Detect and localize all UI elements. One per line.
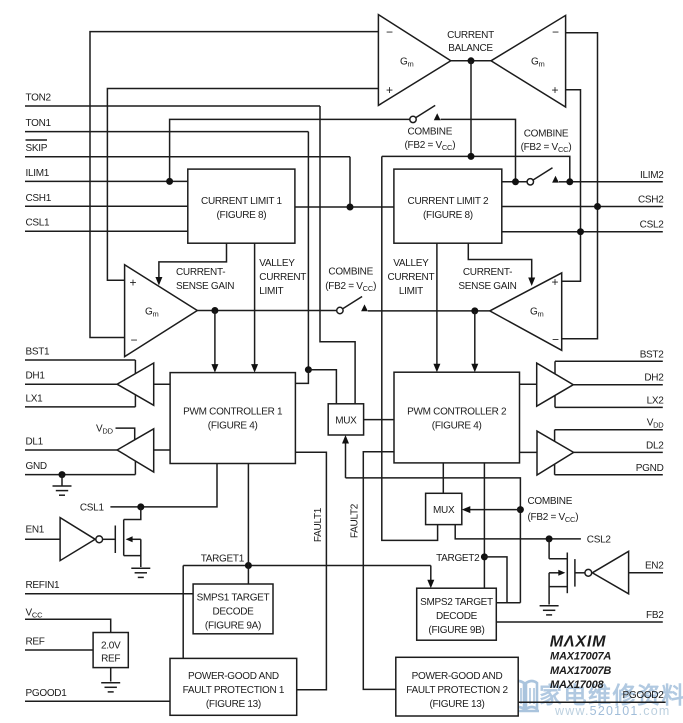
wire BST1 stub into driver top edge	[134, 360, 136, 374]
wire between current limit blocks	[295, 206, 394, 208]
svg-text:−: −	[552, 333, 559, 347]
block 2.0V REF	[93, 633, 128, 668]
buffer DH2 gate driver	[537, 363, 574, 406]
wire VDD stub into DL1 driver top edge	[116, 428, 135, 440]
svg-text:VALLEY: VALLEY	[393, 258, 429, 269]
wire PWM2 down to TARGET2	[483, 463, 485, 588]
svg-text:EN2: EN2	[645, 560, 664, 571]
svg-text:LIMIT: LIMIT	[259, 286, 283, 297]
wire left sense amp output	[197, 310, 336, 312]
svg-text:MUX: MUX	[335, 416, 357, 427]
svg-text:SENSE GAIN: SENSE GAIN	[176, 281, 234, 292]
wire LX1 stub into driver bottom edge	[134, 395, 136, 407]
wire FAULT2	[363, 452, 396, 690]
svg-text:SKIP: SKIP	[26, 143, 48, 154]
wire LX2 stub into driver bottom edge	[554, 395, 556, 407]
wire EN1 inverter to gate	[103, 538, 116, 540]
wire current-sense gain set 2	[468, 243, 531, 278]
svg-text:FB2: FB2	[646, 610, 664, 621]
node sense output 2	[471, 307, 478, 314]
svg-text:(FIGURE 9A): (FIGURE 9A)	[205, 621, 261, 632]
node FB2-select junction	[517, 506, 524, 513]
wire PWM2 to DH2 driver	[520, 383, 537, 385]
svg-text:CSL1: CSL1	[26, 218, 51, 229]
wire DL1 driver to PWM1	[154, 449, 170, 451]
wire current balance output down to combine bus	[470, 61, 472, 157]
svg-text:TARGET2: TARGET2	[436, 553, 480, 564]
wire left GM plus input	[107, 89, 378, 281]
switch COMBINE on ILIM2 line	[512, 178, 519, 185]
svg-text:VALLEY: VALLEY	[259, 258, 295, 269]
op-amp GM current balance right	[491, 15, 566, 107]
node CSL2 junction	[577, 228, 584, 235]
block POWER-GOOD AND FAULT PROTECTION 1 (FIGURE 13)	[170, 658, 297, 715]
svg-text:TON1: TON1	[26, 118, 52, 129]
wire center switch to right sense amp output	[368, 310, 490, 312]
svg-text:SENSE GAIN: SENSE GAIN	[458, 281, 516, 292]
svg-text:−: −	[386, 25, 393, 39]
svg-text:+: +	[552, 83, 559, 97]
wire TON2 down to MUX1	[320, 106, 355, 404]
transistor Q2 (CSL2 discharge)	[574, 559, 576, 587]
block SMPS1 TARGET DECODE (FIGURE 9A)	[193, 584, 273, 634]
svg-text:REF: REF	[101, 654, 120, 665]
svg-text:CSH2: CSH2	[638, 195, 664, 206]
wire SKIP down to inter-block net	[349, 157, 351, 207]
block MUX1 (TON select)	[328, 404, 363, 435]
svg-text:POWER-GOOD AND: POWER-GOOD AND	[188, 671, 279, 682]
svg-text:ILIM1: ILIM1	[26, 168, 50, 179]
svg-text:DH1: DH1	[26, 371, 46, 382]
wire MUX1 output to PWM2	[364, 419, 394, 421]
node SKIP junction	[347, 204, 354, 211]
svg-text:PWM CONTROLLER 2: PWM CONTROLLER 2	[407, 407, 507, 418]
wire BST2 stub into driver top edge	[554, 361, 556, 374]
svg-text:BST1: BST1	[26, 347, 51, 358]
wire CSL1 net to PWM1	[110, 464, 217, 507]
svg-text:ΜΛΧΙΜ: ΜΛΧΙΜ	[550, 634, 606, 651]
node CSL2 sense junction	[546, 535, 553, 542]
svg-text:GND: GND	[26, 461, 47, 472]
wire into SMPS2 right edge	[496, 602, 520, 604]
watermark book icon	[511, 681, 539, 711]
svg-text:LX2: LX2	[647, 395, 665, 406]
wire VCC to 2.0V REF box	[25, 619, 111, 632]
wire sense output 1 to PWM1	[214, 311, 216, 365]
node combine bus junction	[468, 153, 475, 160]
wire MUX2 output up to PWM2	[442, 463, 444, 493]
wire combine bus to ILIM2 switch	[382, 156, 570, 181]
svg-text:CSL1: CSL1	[80, 502, 105, 513]
svg-text:FAULT2: FAULT2	[350, 503, 361, 538]
svg-text:EN1: EN1	[26, 525, 45, 536]
wire VDD stub into DL2 driver top edge	[554, 430, 556, 442]
svg-text:+: +	[130, 276, 137, 290]
wire TARGET1 arrow into SMPS2 decode	[430, 566, 432, 581]
svg-text:PGND: PGND	[636, 463, 664, 474]
svg-text:LX1: LX1	[26, 393, 44, 404]
wire TON1 into PWM1	[295, 370, 308, 384]
block POWER-GOOD AND FAULT PROTECTION 2 (FIGURE 13)	[396, 657, 518, 716]
wire PWM2 to DL2 driver	[520, 451, 538, 453]
buffer DH1 gate driver	[117, 363, 154, 405]
wire right GM plus input to CSL2	[566, 90, 581, 232]
svg-text:SMPS1 TARGET: SMPS1 TARGET	[197, 593, 270, 604]
svg-text:FAULT PROTECTION 1: FAULT PROTECTION 1	[183, 685, 285, 696]
wire PGND stub into DL2 driver bottom edge	[554, 463, 556, 475]
svg-text:+: +	[386, 83, 393, 97]
svg-text:MAX17007A: MAX17007A	[550, 651, 611, 663]
svg-text:CURRENT: CURRENT	[447, 30, 494, 41]
wire left GM minus input	[90, 32, 378, 338]
svg-text:DECODE: DECODE	[436, 611, 478, 622]
wire joining the two GM outputs	[451, 60, 491, 62]
op-amp GM current-sense right	[490, 273, 562, 350]
svg-text:COMBINE: COMBINE	[408, 127, 453, 138]
wire PWM1 to TARGET1 to SMPS1 decode	[247, 464, 249, 585]
svg-text:DL2: DL2	[646, 440, 664, 451]
svg-text:(FIGURE 9B): (FIGURE 9B)	[428, 625, 484, 636]
svg-text:CURRENT-: CURRENT-	[176, 267, 225, 278]
svg-text:www.520101.com: www.520101.com	[554, 704, 670, 718]
svg-text:DECODE: DECODE	[213, 607, 255, 618]
wire sense output 2 to PWM2	[474, 311, 476, 364]
node CSH2 junction	[594, 203, 601, 210]
block SMPS2 TARGET DECODE (FIGURE 9B)	[417, 588, 497, 640]
wire TARGET1 net	[183, 565, 431, 567]
svg-text:(FIGURE 4): (FIGURE 4)	[208, 421, 258, 432]
wire TARGET2 loop into SMPS2 right edge	[484, 557, 507, 603]
wire CSL2 down to mosfet	[548, 539, 550, 559]
svg-text:SMPS2 TARGET: SMPS2 TARGET	[420, 597, 493, 608]
svg-text:(FIGURE 13): (FIGURE 13)	[429, 699, 484, 710]
wire EN2 inverter to gate	[575, 572, 585, 574]
node TON1 junction	[305, 366, 312, 373]
wire FB2-select into MUX1	[345, 443, 347, 478]
svg-text:ILIM2: ILIM2	[640, 170, 664, 181]
svg-text:CURRENT-: CURRENT-	[463, 267, 512, 278]
inverter EN2	[592, 551, 628, 594]
wire TARGET1 down to power-good 1	[182, 566, 184, 659]
svg-text:−: −	[552, 25, 559, 39]
svg-text:REFIN1: REFIN1	[26, 580, 61, 591]
block PWM CONTROLLER 1 (FIGURE 4)	[170, 373, 295, 464]
svg-text:(FIGURE 8): (FIGURE 8)	[423, 210, 473, 221]
wire MUX2 input CSL2	[455, 525, 581, 539]
node TARGET2 junction	[481, 553, 488, 560]
svg-text:−: −	[131, 333, 138, 347]
svg-text:CURRENT LIMIT 1: CURRENT LIMIT 1	[201, 196, 282, 207]
op-amp GM current-sense left	[125, 265, 198, 357]
svg-text:BALANCE: BALANCE	[448, 43, 493, 54]
svg-text:FAULT PROTECTION 2: FAULT PROTECTION 2	[406, 685, 508, 696]
svg-text:PGOOD1: PGOOD1	[26, 688, 68, 699]
wire current-sense gain set 1	[159, 243, 227, 277]
buffer DL1 gate driver	[117, 429, 154, 472]
svg-text:(FIGURE 13): (FIGURE 13)	[206, 699, 261, 710]
svg-text:FAULT1: FAULT1	[313, 507, 324, 542]
svg-text:DH2: DH2	[644, 373, 664, 384]
wire ILIM2 from current limit 2	[502, 181, 527, 183]
block PWM CONTROLLER 2 (FIGURE 4)	[394, 372, 520, 463]
svg-text:(FIGURE 8): (FIGURE 8)	[217, 210, 267, 221]
svg-text:CSL2: CSL2	[587, 534, 612, 545]
svg-text:DL1: DL1	[26, 437, 44, 448]
ground symbol EN1 mosfet	[131, 567, 150, 569]
buffer DL2 gate driver	[537, 431, 574, 475]
svg-text:TARGET1: TARGET1	[201, 554, 245, 565]
svg-text:COMBINE: COMBINE	[328, 267, 373, 278]
svg-text:CSH1: CSH1	[26, 193, 52, 204]
inverter EN1	[60, 518, 95, 561]
wire DH1 driver to PWM1	[154, 383, 170, 385]
svg-text:MAX17007B: MAX17007B	[550, 665, 611, 677]
wire FB2-select bus	[346, 478, 521, 603]
ground symbol below GND pin	[61, 475, 63, 486]
op-amp GM current balance left	[378, 15, 450, 106]
svg-text:CSL2: CSL2	[640, 220, 665, 231]
wire TON1 down	[307, 132, 309, 370]
svg-text:COMBINE: COMBINE	[524, 128, 569, 139]
block MUX2 (target select)	[426, 493, 462, 524]
svg-text:PWM CONTROLLER 1: PWM CONTROLLER 1	[183, 407, 283, 418]
wire right GM minus input to CSH2	[566, 33, 598, 207]
svg-text:TON2: TON2	[26, 93, 52, 104]
node sense output 1	[211, 307, 218, 314]
node current balance output	[468, 57, 475, 64]
svg-text:REF: REF	[26, 637, 45, 648]
svg-text:+: +	[552, 275, 559, 289]
svg-text:PGOOD2: PGOOD2	[623, 690, 665, 701]
wire valley current limit 1 to PWM1	[254, 243, 256, 364]
svg-text:CURRENT: CURRENT	[259, 272, 306, 283]
svg-text:CURRENT LIMIT 2: CURRENT LIMIT 2	[408, 196, 489, 207]
wire FB2-select into MUX2	[470, 509, 520, 511]
svg-text:CURRENT: CURRENT	[388, 272, 435, 283]
switch COMBINE center	[337, 307, 343, 313]
node CSL1 junction	[137, 503, 144, 510]
svg-text:MAX17008: MAX17008	[550, 679, 605, 691]
transistor Q1 (CSL1 discharge)	[114, 526, 116, 554]
ground symbol below REF box	[110, 668, 112, 682]
svg-text:(FIGURE 4): (FIGURE 4)	[432, 421, 482, 432]
svg-text:POWER-GOOD AND: POWER-GOOD AND	[412, 671, 503, 682]
switch COMBINE upper (FB2=VCC)	[410, 116, 416, 122]
block CURRENT LIMIT 2 (FIGURE 8)	[394, 169, 502, 243]
svg-text:COMBINE: COMBINE	[528, 496, 573, 507]
svg-text:BST2: BST2	[640, 349, 665, 360]
svg-text:2.0V: 2.0V	[101, 641, 121, 652]
wire GND stub into DL1 driver bottom edge	[134, 462, 136, 475]
junction on GND line	[59, 471, 66, 478]
ground symbol EN2 mosfet	[540, 605, 559, 607]
svg-text:LIMIT: LIMIT	[399, 286, 423, 297]
wire FAULT1	[295, 452, 326, 690]
block CURRENT LIMIT 1 (FIGURE 8)	[188, 169, 295, 243]
wire combine bus down to MUX2	[382, 156, 438, 540]
wire valley current limit 2 to PWM2	[436, 243, 438, 364]
svg-text:MUX: MUX	[433, 505, 455, 516]
node TARGET1 junction	[245, 562, 252, 569]
node ILIM1 junction	[166, 178, 173, 185]
wire TON1 into MUX1	[308, 370, 336, 404]
wire ILIM1 up to combine switch	[170, 119, 410, 181]
